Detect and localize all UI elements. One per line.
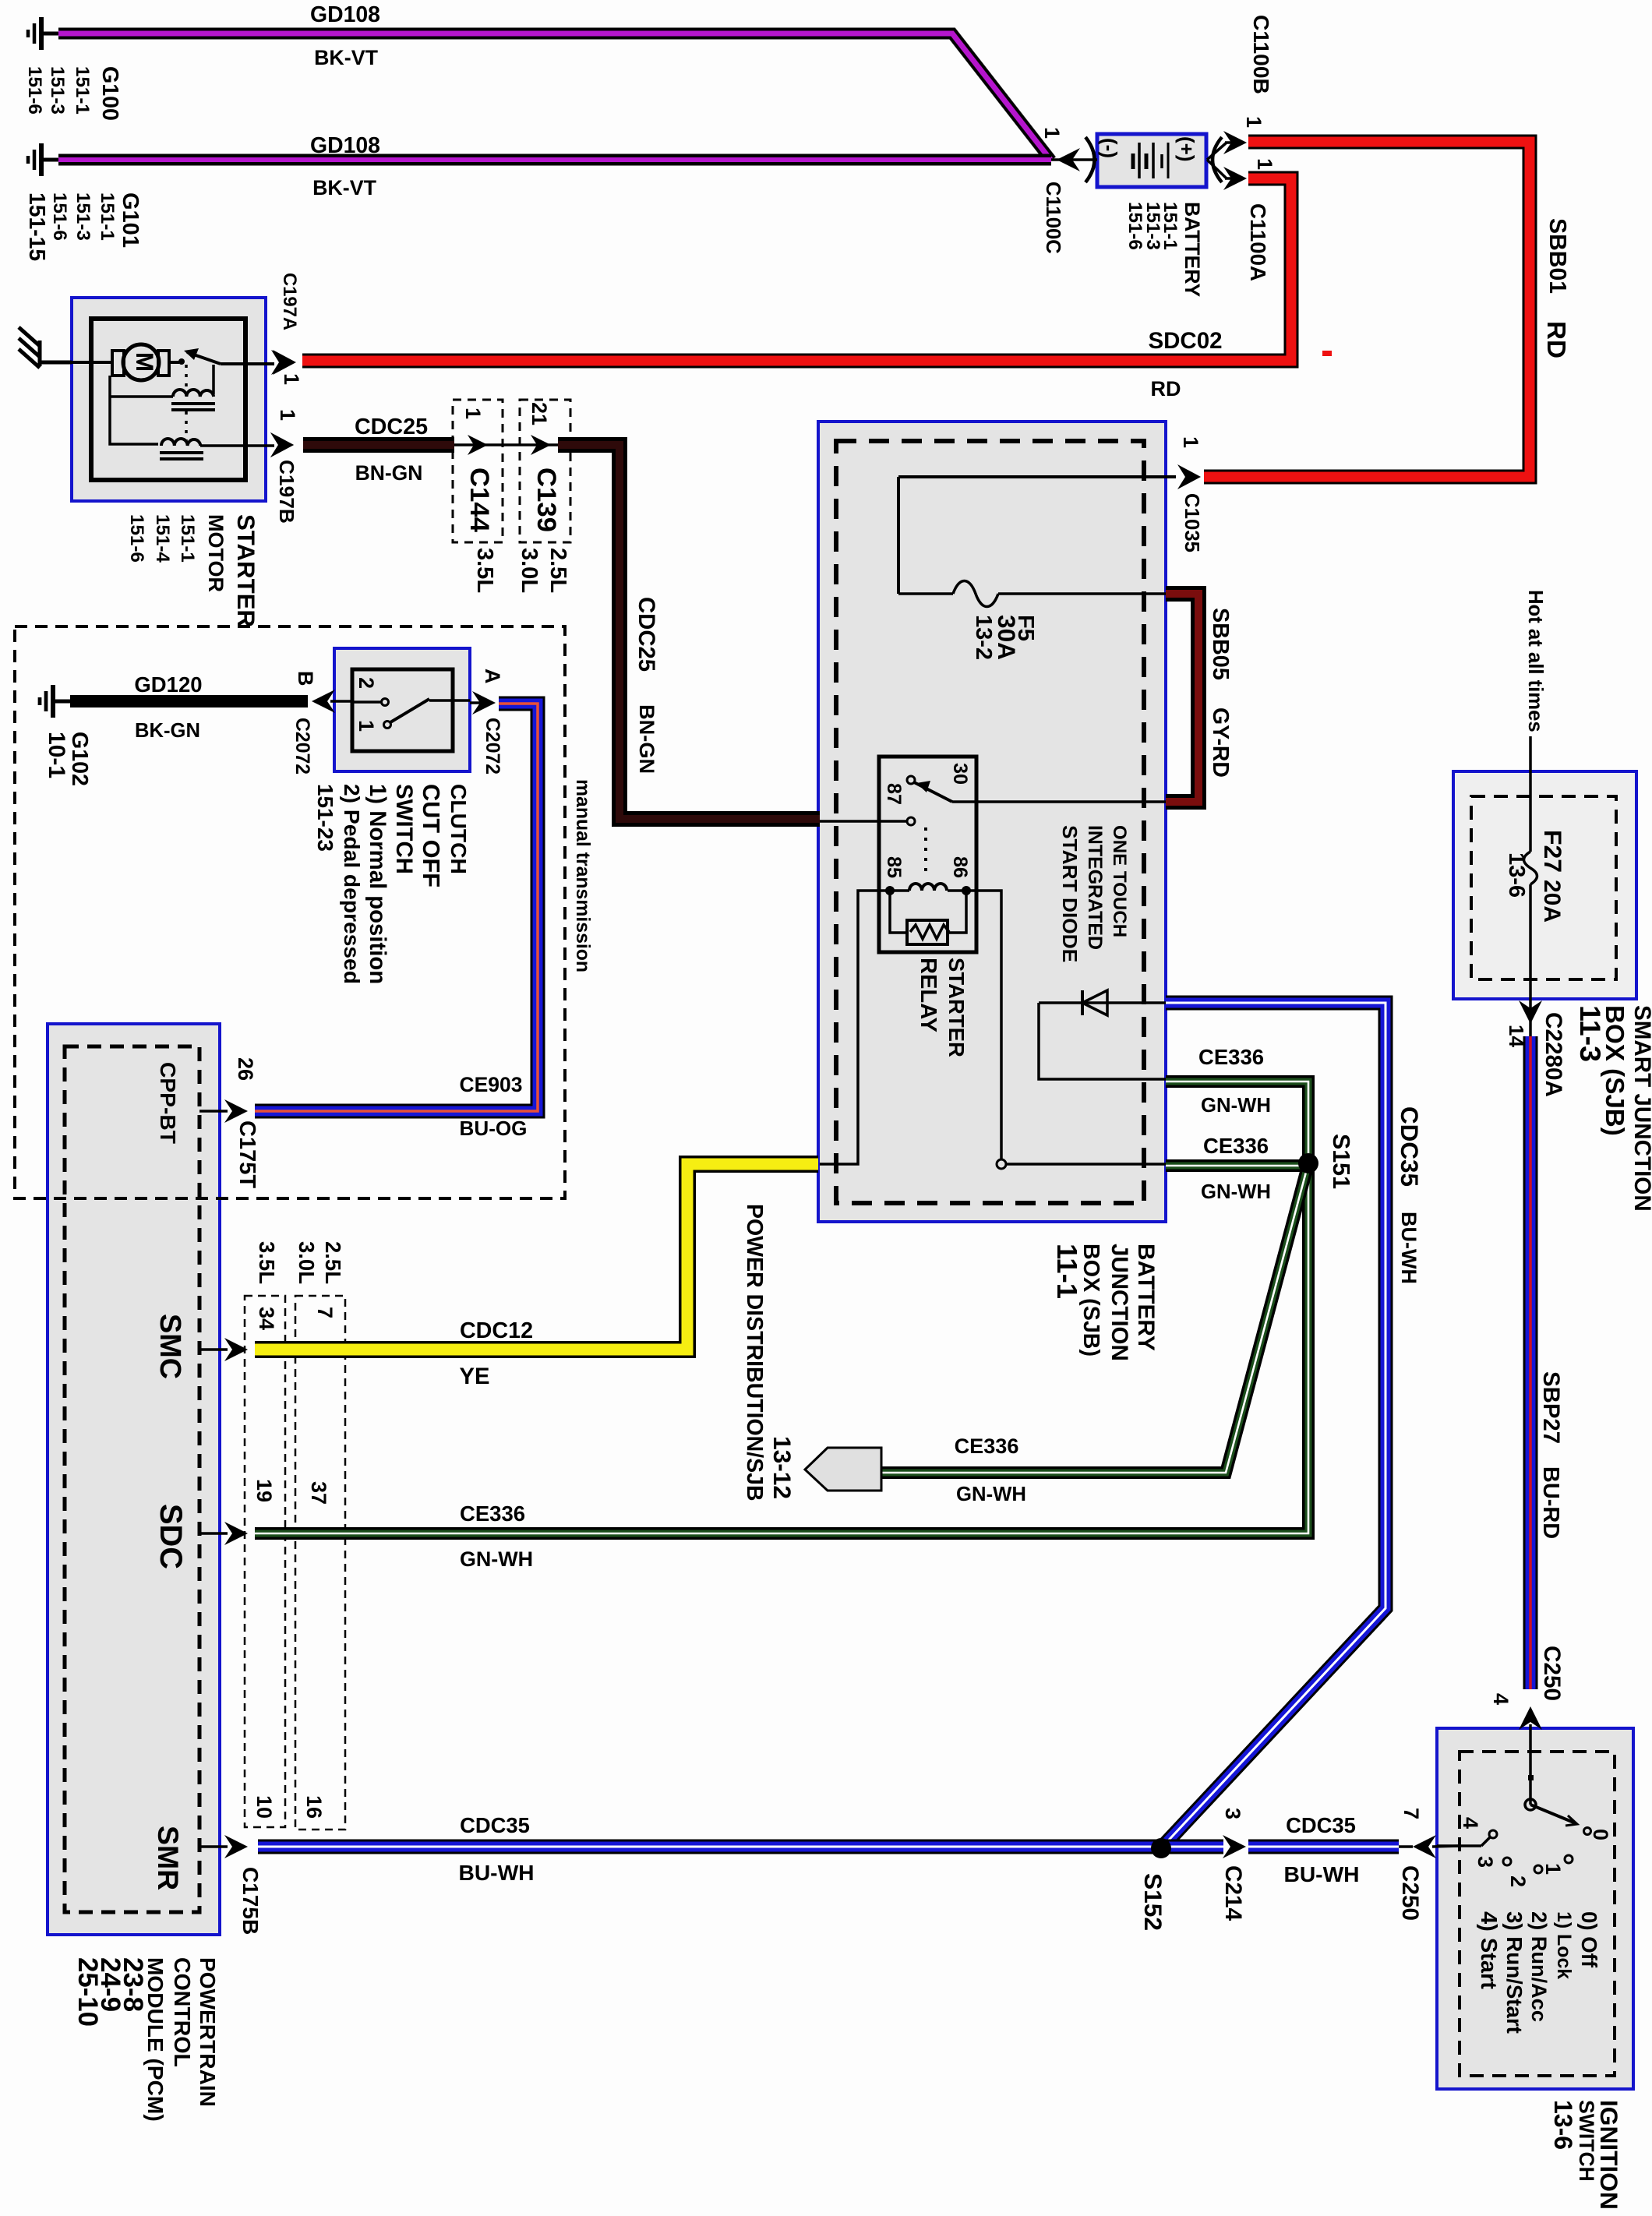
svg-text:13-2: 13-2: [971, 615, 996, 660]
svg-text:3: 3: [1221, 1808, 1244, 1819]
svg-text:B: B: [294, 671, 317, 686]
svg-text:CDC35: CDC35: [1286, 1813, 1356, 1837]
svg-text:1) Lock: 1) Lock: [1553, 1911, 1575, 1979]
svg-text:2: 2: [1506, 1875, 1530, 1887]
svg-text:POWER DISTRIBUTION/SJB: POWER DISTRIBUTION/SJB: [742, 1204, 767, 1501]
svg-text:C1100A: C1100A: [1246, 203, 1270, 281]
svg-text:34: 34: [255, 1307, 278, 1330]
svg-text:BU-WH: BU-WH: [1283, 1861, 1359, 1886]
svg-text:SWITCH: SWITCH: [1575, 2100, 1598, 2182]
svg-text:1: 1: [461, 408, 485, 419]
svg-text:C197A: C197A: [279, 273, 300, 330]
svg-text:SMC: SMC: [154, 1314, 186, 1379]
svg-text:26: 26: [234, 1057, 257, 1081]
svg-text:CDC25: CDC25: [355, 415, 428, 439]
svg-text:C175T: C175T: [235, 1120, 259, 1188]
svg-text:3.5L: 3.5L: [472, 548, 497, 593]
svg-text:86: 86: [949, 856, 971, 878]
svg-text:151-1: 151-1: [97, 192, 118, 241]
svg-text:SMR: SMR: [152, 1826, 185, 1890]
svg-text:C175B: C175B: [238, 1867, 263, 1935]
svg-text:M: M: [131, 352, 157, 372]
svg-text:SMART JUNCTION: SMART JUNCTION: [1629, 1005, 1652, 1212]
svg-text:16: 16: [302, 1795, 326, 1819]
svg-text:ONE TOUCH: ONE TOUCH: [1109, 825, 1130, 937]
svg-text:GN-WH: GN-WH: [1201, 1181, 1271, 1203]
svg-text:1: 1: [355, 720, 378, 732]
svg-text:GN-WH: GN-WH: [1201, 1095, 1271, 1117]
svg-text:151-4: 151-4: [152, 514, 173, 563]
svg-text:START DIODE: START DIODE: [1058, 825, 1082, 962]
svg-text:87: 87: [883, 783, 905, 805]
svg-text:151-23: 151-23: [313, 784, 337, 852]
svg-text:1: 1: [276, 409, 299, 421]
svg-text:1: 1: [280, 373, 303, 385]
svg-text:BU-OG: BU-OG: [460, 1117, 528, 1140]
svg-text:BATTERY: BATTERY: [1181, 202, 1204, 298]
svg-text:SWITCH: SWITCH: [391, 784, 417, 874]
svg-text:CDC35: CDC35: [460, 1813, 530, 1837]
svg-text:13-6: 13-6: [1549, 2100, 1577, 2150]
svg-text:(-): (-): [1098, 138, 1121, 158]
svg-text:3.0L: 3.0L: [295, 1241, 319, 1284]
svg-text:10-1: 10-1: [44, 732, 69, 778]
svg-text:151-3: 151-3: [72, 192, 94, 241]
svg-text:C139: C139: [531, 468, 561, 532]
svg-text:C250: C250: [1539, 1646, 1565, 1701]
svg-text:0) Off: 0) Off: [1577, 1911, 1601, 1968]
svg-text:BU-RD: BU-RD: [1538, 1466, 1563, 1539]
svg-text:CONTROL: CONTROL: [169, 1957, 194, 2067]
svg-text:4: 4: [1489, 1693, 1513, 1705]
svg-text:BU-WH: BU-WH: [1397, 1212, 1421, 1284]
svg-text:YE: YE: [460, 1364, 490, 1389]
svg-text:1) Normal position: 1) Normal position: [365, 784, 390, 984]
svg-text:INTEGRATED: INTEGRATED: [1084, 825, 1106, 950]
svg-text:CDC25: CDC25: [634, 597, 659, 672]
svg-text:CE336: CE336: [1198, 1045, 1264, 1069]
svg-text:37: 37: [307, 1481, 330, 1505]
svg-text:GD108: GD108: [310, 2, 380, 27]
svg-text:21: 21: [528, 402, 551, 425]
svg-text:STARTER: STARTER: [232, 514, 259, 627]
svg-text:151-6: 151-6: [1124, 202, 1145, 250]
svg-text:25-10: 25-10: [72, 1957, 103, 2027]
svg-text:151-6: 151-6: [49, 192, 70, 241]
svg-text:1: 1: [1253, 158, 1276, 170]
svg-text:1: 1: [1040, 127, 1064, 139]
svg-text:F27: F27: [1539, 830, 1567, 873]
svg-text:CE336: CE336: [460, 1501, 525, 1526]
svg-text:GD108: GD108: [310, 133, 380, 158]
svg-text:2.5L: 2.5L: [545, 548, 570, 593]
svg-text:7: 7: [313, 1307, 337, 1318]
svg-text:C214: C214: [1220, 1865, 1246, 1921]
svg-text:CPP-BT: CPP-BT: [156, 1062, 181, 1144]
svg-text:manual transmission: manual transmission: [572, 779, 593, 972]
svg-text:C2072: C2072: [291, 718, 312, 775]
svg-text:3.5L: 3.5L: [255, 1241, 279, 1284]
svg-text:RD: RD: [1151, 377, 1181, 401]
svg-text:13-12: 13-12: [768, 1436, 796, 1499]
svg-text:14: 14: [1505, 1025, 1528, 1048]
svg-text:C2072: C2072: [482, 718, 503, 775]
svg-text:(+): (+): [1175, 136, 1198, 162]
svg-text:19: 19: [252, 1479, 276, 1502]
svg-text:7: 7: [1400, 1808, 1423, 1819]
svg-text:CE336: CE336: [955, 1434, 1019, 1458]
svg-text:SDC02: SDC02: [1148, 328, 1222, 354]
svg-text:151-3: 151-3: [47, 66, 68, 115]
svg-text:4: 4: [1459, 1817, 1482, 1829]
svg-text:SBB05: SBB05: [1208, 608, 1233, 680]
svg-text:151-1: 151-1: [72, 66, 93, 115]
svg-text:GN-WH: GN-WH: [956, 1484, 1026, 1505]
svg-text:GD120: GD120: [134, 672, 202, 697]
svg-text:A: A: [481, 669, 504, 684]
svg-text:CDC35: CDC35: [1396, 1106, 1423, 1187]
svg-text:BK-GN: BK-GN: [135, 720, 200, 742]
svg-text:BK-VT: BK-VT: [314, 46, 379, 69]
svg-text:C197B: C197B: [275, 460, 298, 524]
svg-text:151-6: 151-6: [126, 514, 147, 563]
svg-text:BN-GN: BN-GN: [635, 704, 659, 774]
svg-text:11-3: 11-3: [1574, 1005, 1607, 1062]
svg-text:151-15: 151-15: [25, 192, 50, 261]
svg-text:GN-WH: GN-WH: [460, 1547, 533, 1571]
svg-text:C1100C: C1100C: [1042, 182, 1064, 254]
svg-text:2) Run/Acc: 2) Run/Acc: [1527, 1911, 1551, 2022]
svg-text:C2280A: C2280A: [1541, 1012, 1566, 1097]
svg-text:0: 0: [1589, 1829, 1612, 1840]
svg-text:4) Start: 4) Start: [1476, 1911, 1501, 1989]
svg-text:CUT OFF: CUT OFF: [418, 784, 445, 887]
svg-text:151-6: 151-6: [24, 66, 45, 115]
svg-text:SBB01: SBB01: [1544, 218, 1570, 294]
svg-text:1: 1: [1242, 116, 1265, 128]
svg-text:3: 3: [1474, 1856, 1497, 1868]
svg-text:30A: 30A: [993, 615, 1021, 660]
svg-text:BN-GN: BN-GN: [355, 461, 423, 485]
svg-text:G100: G100: [97, 66, 122, 121]
svg-text:2: 2: [355, 677, 378, 689]
svg-text:151-1: 151-1: [177, 514, 198, 563]
svg-text:C250: C250: [1397, 1865, 1423, 1921]
svg-text:POWERTRAIN: POWERTRAIN: [196, 1957, 220, 2107]
svg-text:2) Pedal depressed: 2) Pedal depressed: [340, 784, 365, 984]
svg-text:SDC: SDC: [154, 1504, 188, 1569]
svg-text:CLUTCH: CLUTCH: [447, 784, 471, 874]
svg-text:STARTER: STARTER: [944, 958, 969, 1057]
svg-text:30: 30: [949, 763, 971, 785]
svg-text:3.0L: 3.0L: [517, 548, 542, 593]
svg-text:G102: G102: [67, 732, 92, 786]
svg-text:BU-WH: BU-WH: [458, 1860, 534, 1885]
svg-text:RD: RD: [1541, 321, 1570, 358]
svg-text:10: 10: [252, 1795, 276, 1819]
svg-text:RELAY: RELAY: [916, 958, 941, 1032]
svg-text:G101: G101: [118, 192, 143, 248]
svg-text:JUNCTION: JUNCTION: [1107, 1244, 1132, 1361]
svg-text:1: 1: [1179, 436, 1202, 448]
svg-text:C144: C144: [464, 468, 494, 533]
svg-text:CDC12: CDC12: [460, 1318, 533, 1343]
svg-text:SBP27: SBP27: [1538, 1371, 1564, 1444]
svg-text:S151: S151: [1328, 1134, 1354, 1189]
svg-text:85: 85: [883, 856, 905, 878]
svg-text:CE903: CE903: [459, 1073, 522, 1096]
svg-text:MOTOR: MOTOR: [204, 514, 228, 592]
svg-text:C1035: C1035: [1181, 493, 1202, 552]
svg-text:11-1: 11-1: [1051, 1244, 1083, 1299]
svg-text:CE336: CE336: [1203, 1134, 1269, 1158]
svg-text:BK-VT: BK-VT: [312, 176, 377, 199]
svg-text:C1100B: C1100B: [1249, 15, 1274, 94]
svg-text:Hot at all times: Hot at all times: [1524, 590, 1546, 732]
svg-text:S152: S152: [1139, 1873, 1167, 1931]
svg-text:2.5L: 2.5L: [321, 1241, 345, 1284]
svg-text:3) Run/Start: 3) Run/Start: [1502, 1911, 1527, 2034]
svg-text:GY-RD: GY-RD: [1208, 707, 1233, 778]
svg-text:BATTERY: BATTERY: [1133, 1244, 1159, 1351]
svg-text:1: 1: [1541, 1863, 1565, 1875]
svg-text:20A: 20A: [1539, 880, 1565, 923]
svg-text:IGNITION: IGNITION: [1595, 2100, 1623, 2210]
svg-text:13-6: 13-6: [1504, 852, 1529, 898]
